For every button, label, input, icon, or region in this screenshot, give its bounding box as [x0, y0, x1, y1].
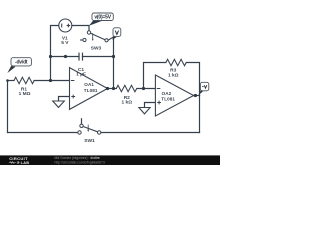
switch SW3 — [80, 31, 108, 42]
svg-text:1 kΩ: 1 kΩ — [168, 72, 179, 78]
probe badge v at SW3 — [112, 28, 121, 40]
probe badge at OA2 output — [198, 82, 208, 95]
svg-text:http://circuitlab.com/c/fvg8ka: http://circuitlab.com/c/fvg8ka6673 — [55, 160, 105, 164]
OA1 minus sign — [71, 80, 75, 82]
OA2 minus sign — [157, 88, 161, 90]
ground G2 — [139, 108, 150, 114]
wire right vertical — [199, 96, 201, 133]
switch SW1 — [78, 124, 101, 134]
svg-text:TL081: TL081 — [161, 97, 175, 102]
wire SW1 upper stub — [81, 119, 83, 124]
svg-text:v(0)=5V: v(0)=5V — [94, 15, 111, 21]
svg-text:-dv/dt: -dv/dt — [15, 60, 28, 66]
label flag v(0)=5V — [89, 13, 113, 26]
junction C1 wire right node — [112, 55, 115, 58]
R1 labels — [19, 86, 31, 97]
OA1 labels — [84, 82, 98, 93]
junction OA2 output node — [194, 94, 197, 97]
svg-text:Md Gomez (rdgomez) : dvdtre: Md Gomez (rdgomez) : dvdtre — [55, 156, 100, 160]
wire V1 left to corner — [51, 26, 59, 81]
junction R1 right / OA1 inverting input node — [49, 79, 52, 82]
resistor R1 — [14, 77, 34, 83]
op-amp OA2 — [155, 75, 193, 116]
ground G1 — [53, 101, 65, 107]
junction C1 wire left node — [49, 55, 52, 58]
capacitor C1 — [79, 53, 83, 61]
C1 labels — [76, 67, 86, 77]
wire OA2 output — [194, 95, 200, 97]
svg-text:OA2: OA2 — [162, 91, 172, 96]
wire C1 right — [83, 56, 114, 58]
V1 labels — [61, 36, 69, 46]
wire R1 input line — [8, 80, 15, 82]
SW3 blade — [91, 33, 106, 39]
wire R3 to corner — [186, 63, 199, 96]
OA2 plus sign — [157, 101, 161, 105]
wire feedback up — [144, 63, 166, 89]
voltage source V1 — [59, 19, 72, 32]
junction OA1 output — [106, 87, 109, 90]
wire R1 to opamp — [34, 80, 69, 82]
svg-text:1 MΩ: 1 MΩ — [19, 91, 31, 97]
SW3 actuator arrow — [92, 33, 94, 39]
svg-text:5 V: 5 V — [61, 40, 69, 46]
SW3 left stub — [80, 39, 83, 41]
resistor R3 — [166, 59, 186, 65]
R2 labels — [122, 95, 133, 106]
SW1 blade — [83, 127, 98, 132]
SW1 actuator arrow — [87, 125, 89, 131]
op-amp OA1 — [70, 68, 108, 110]
wire left vertical — [7, 81, 9, 133]
svg-text:OA1: OA1 — [84, 82, 94, 87]
wire OA1 out to R2 — [108, 88, 117, 90]
svg-text:SW1: SW1 — [84, 138, 95, 144]
wire G1 stub — [59, 97, 70, 102]
node A (-dv/dt input node) — [6, 79, 9, 82]
junction C1 wire mid node — [64, 55, 67, 58]
svg-text:1 kΩ: 1 kΩ — [122, 100, 133, 106]
OA2 labels — [161, 91, 175, 102]
junction R2 right / R3 feedback node — [142, 87, 145, 90]
svg-text:TL081: TL081 — [84, 88, 98, 93]
wire bottom rail left — [8, 132, 78, 134]
wire V1 right to switch node — [72, 26, 89, 31]
svg-text:SW3: SW3 — [91, 46, 102, 52]
R3 labels — [168, 68, 179, 79]
svg-text:LAB: LAB — [21, 161, 30, 165]
wire G2 stub — [145, 103, 156, 108]
svg-text:1 μF: 1 μF — [76, 71, 86, 77]
OA1 plus sign — [71, 95, 75, 99]
wire C1 left — [51, 56, 80, 58]
wire R2 to OA2 minus — [137, 88, 156, 90]
label flag -dv/dt — [7, 58, 31, 73]
resistor R2 — [116, 85, 137, 91]
wire bottom rail right — [101, 132, 200, 134]
footer watermark bar — [0, 155, 220, 165]
wire switch pole to vertical — [108, 37, 113, 89]
junction OA1 output / switch branch — [112, 87, 115, 90]
